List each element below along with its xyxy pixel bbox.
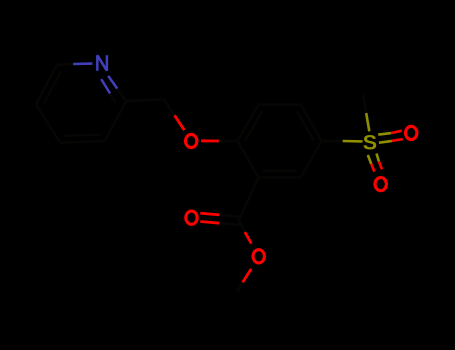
wire bond CH2-O1 carbon half (164, 100, 175, 116)
wire bond S1=O4 upper line sulfur half (olive) (378, 133, 391, 135)
wire bond S1=O4 lower line oxygen half (red) (392, 139, 403, 141)
wire bond O3-C9 methyl carbon half (237, 282, 243, 291)
wire benzene bond C6b-C1b (outer) (259, 176, 301, 179)
atom label O (sulfonyl O4) (406, 126, 417, 139)
wire benzene bond C5b-C6b (301, 141, 322, 178)
wire bond S1-C10 methyl carbon half (363, 94, 366, 113)
wire bond C2-CH2 linker (126, 100, 164, 102)
wire benzene bond C3b-C4b (259, 103, 301, 106)
wire benzene bond C2b-C3b (outer) (238, 105, 259, 141)
wire bond C8=O2 upper line carbon half (219, 215, 238, 217)
wire pyridine bond C5-C6 (outer) (36, 65, 57, 105)
wire pyridine bond C6-N1 carbon half (57, 63, 73, 66)
wire bond O1-C2b oxygen half (red) (201, 139, 219, 142)
atom label O (ester O3) (253, 250, 264, 263)
wire pyridine bond N1=C2 inner line carbon half (110, 94, 116, 103)
wire bond C1b-C8 (to carbonyl) (239, 178, 259, 221)
wire bond S1=O4 upper line oxygen half (red) (391, 131, 402, 133)
atom label O (carbonyl O2) (186, 211, 197, 224)
wire bond S1=O5 left line oxygen half (red) (371, 164, 374, 172)
wire bond S1=O5 right line sulfur half (olive) (377, 154, 379, 162)
wire pyridine bond C2-C3 (105, 101, 126, 141)
wire bond S1-C10 sulfur half (olive) (366, 113, 369, 131)
wire pyridine bond N1=C2 outer line nitrogen half (blue) (108, 76, 117, 89)
wire bond O3-C9 oxygen half (red) (243, 269, 252, 283)
wire pyridine bond N1=C2 inner line nitrogen half (blue) (101, 79, 110, 93)
wire bond O1-C2b carbon half (219, 140, 238, 143)
wire bond C8=O2 lower line oxygen half (red) (200, 222, 219, 224)
wire bond S1=O4 lower line sulfur half (olive) (379, 141, 392, 143)
wire bond C5b-S1 sulfur half (olive) (343, 140, 363, 143)
wire bond S1=O5 left line sulfur half (olive) (368, 155, 372, 164)
wire pyridine bond C5=C6 inner line (44, 71, 61, 104)
atom label N (pyridine N1) (97, 55, 107, 71)
wire bond CH2-O1 oxygen half (red) (175, 115, 185, 130)
wire benzene bond C4b-C5b (outer) (301, 105, 322, 141)
wire bond C8-O3 oxygen half (red) (245, 232, 251, 243)
wire bond C8=O2 lower line carbon half (219, 223, 238, 225)
wire pyridine bond C6-N1 nitrogen half (blue) (73, 62, 92, 65)
wire bond S1=O5 right line oxygen half (red) (379, 162, 382, 170)
wire pyridine bond C3-C4 (outer) (60, 141, 105, 143)
wire bond C8=O2 upper line oxygen half (red) (200, 213, 219, 215)
wire bond C8-O3 carbon half (239, 221, 245, 232)
atom label O (ether O1) (186, 134, 197, 147)
wire benzene bond C2b=C3b inner line (245, 111, 262, 141)
wire pyridine bond N1=C2 outer line carbon half (117, 89, 126, 101)
atom label O (sulfonyl O5) (375, 178, 386, 191)
svg-text:S: S (363, 131, 377, 155)
wire benzene bond C1b-C2b (238, 141, 259, 178)
wire bond C5b-S1 carbon half (322, 140, 343, 143)
wire pyridine bond C3=C4 inner line (64, 135, 101, 136)
wire benzene bond C6b=C1b inner line (263, 170, 297, 172)
wire pyridine bond C4-C5 (36, 105, 60, 143)
wire benzene bond C4b=C5b inner line (297, 111, 314, 141)
